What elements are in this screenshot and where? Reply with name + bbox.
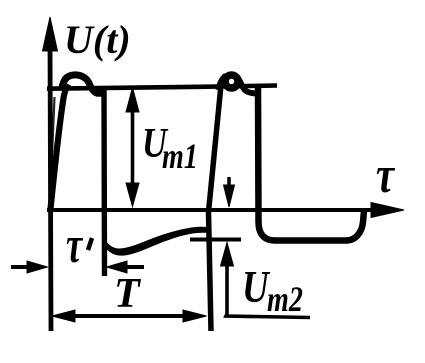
- dimension T line with arrows: [52, 310, 207, 322]
- svg-text:T: T: [114, 271, 142, 317]
- dimension Um1 arrows: [126, 88, 139, 207]
- pulse 1 rising edge: [51, 84, 69, 209]
- top reference line: [47, 86, 277, 89]
- undershoot recovery curve: [102, 227, 211, 256]
- svg-text:U(t): U(t): [64, 17, 131, 62]
- svg-text:τ: τ: [66, 216, 84, 274]
- pulse 1 overshoot bump: [62, 75, 106, 93]
- dimension tau-prime left arrow: [11, 261, 48, 273]
- dimension Um2 up arrow with leader: [221, 243, 311, 318]
- dimension Um2 down arrow: [224, 177, 235, 207]
- svg-text:m1: m1: [162, 136, 198, 176]
- axis U(t) vertical: [43, 17, 58, 331]
- svg-text:m2: m2: [267, 279, 303, 319]
- svg-text:τ: τ: [376, 146, 395, 204]
- pulse 2 overshoot bump: [225, 75, 238, 88]
- pulse 2 falling edge with undershoot tail: [258, 85, 364, 241]
- pulse 2 rising edge with lower extension line: [209, 85, 222, 331]
- Um2 level line: [190, 238, 241, 242]
- axis tau horizontal: [47, 203, 404, 218]
- dimension tau-prime right arrow: [107, 261, 145, 273]
- wire: print streak beside rising edge: [52, 97, 55, 168]
- pulse 1 falling edge: [101, 88, 107, 276]
